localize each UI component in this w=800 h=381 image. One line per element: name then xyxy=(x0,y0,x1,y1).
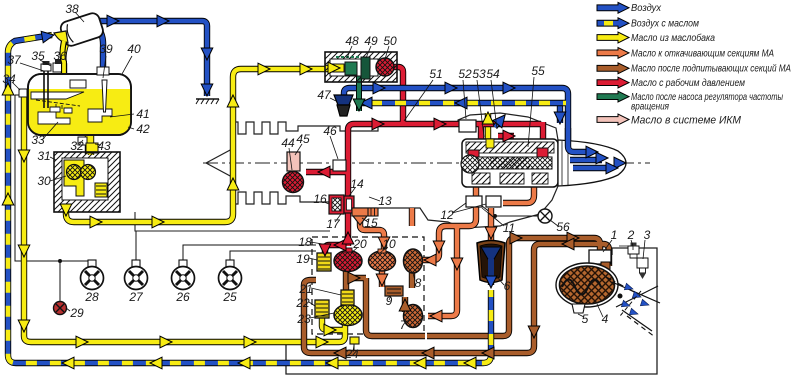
flow arrows brown xyxy=(334,232,579,359)
radiator housing 1 xyxy=(589,250,611,264)
svg-text:43: 43 xyxy=(97,139,111,153)
dashed pump unit box MA xyxy=(312,237,424,334)
wire yellow pipe separator to tank xyxy=(63,41,65,73)
radiator inlet pipe xyxy=(601,262,610,272)
air separator 38 xyxy=(59,11,105,47)
svg-text:31: 31 xyxy=(37,149,50,163)
svg-text:48: 48 xyxy=(345,34,359,48)
tank float valve xyxy=(50,107,72,113)
svg-text:50: 50 xyxy=(383,34,397,48)
svg-text:33: 33 xyxy=(31,133,45,147)
wire sensor 25 xyxy=(230,251,316,262)
legend arrow oil after makeup xyxy=(597,63,629,74)
flow arrows blue xyxy=(41,15,618,288)
svg-text:25: 25 xyxy=(222,290,237,304)
drain fitting 32 xyxy=(78,137,87,145)
fuel valve 3 xyxy=(619,246,648,279)
wire yellow oil lines (outlines) xyxy=(24,44,488,342)
svg-text:56: 56 xyxy=(556,220,570,234)
svg-text:Масло в системе ИКМ: Масло в системе ИКМ xyxy=(631,114,742,126)
oil tank 40 xyxy=(28,74,131,135)
svg-text:37: 37 xyxy=(7,53,22,67)
legend arrow oil to scavenge xyxy=(597,48,629,59)
valve 21 xyxy=(341,290,354,305)
separator inlet funnel xyxy=(54,31,68,43)
svg-text:6: 6 xyxy=(504,279,511,293)
wire yellow oil lines xyxy=(24,44,488,342)
svg-text:11: 11 xyxy=(503,221,515,235)
centrifugal breather 47 xyxy=(334,95,353,116)
svg-text:16: 16 xyxy=(313,192,327,206)
tank bottom baffle 33 xyxy=(38,112,70,124)
svg-text:27: 27 xyxy=(128,290,144,304)
svg-text:18: 18 xyxy=(298,235,312,249)
wire red pressure lines xyxy=(306,67,543,257)
makeup pump 23 xyxy=(334,305,362,326)
shutoff valve 56 xyxy=(538,209,552,223)
svg-text:55: 55 xyxy=(531,64,545,78)
svg-text:46: 46 xyxy=(323,124,337,138)
wire from fitting 24 xyxy=(353,344,355,352)
wire air-with-oil dashed line breather run (yellow dashes) xyxy=(357,101,566,106)
legend arrow IKM oil xyxy=(597,114,629,125)
vent symbol xyxy=(196,99,219,104)
pump 44 xyxy=(283,172,304,193)
drain valve 43 xyxy=(86,143,98,153)
engine outline xyxy=(206,113,558,228)
wire green governor line overlay xyxy=(356,80,362,111)
part labels xyxy=(2,2,650,361)
gauge tube 37 xyxy=(44,70,48,108)
fitting 52 xyxy=(459,120,476,132)
filler neck 40 xyxy=(70,80,86,88)
svg-text:1: 1 xyxy=(611,228,618,242)
svg-text:Масло из маслобака: Масло из маслобака xyxy=(631,32,715,44)
sensor 22 xyxy=(315,300,329,318)
svg-text:26: 26 xyxy=(175,290,190,304)
engine centerline xyxy=(203,162,650,164)
air arrow in tail xyxy=(614,157,626,169)
wire valve 56 xyxy=(482,206,539,216)
svg-text:49: 49 xyxy=(364,34,378,48)
tank level mark xyxy=(36,100,80,111)
svg-text:36: 36 xyxy=(53,49,67,63)
svg-text:29: 29 xyxy=(69,306,84,320)
legend arrow governor pump xyxy=(597,91,629,102)
svg-text:45: 45 xyxy=(296,132,310,146)
legend xyxy=(597,2,791,126)
legend arrow working pressure xyxy=(597,77,629,88)
sensor 28 xyxy=(81,260,104,290)
svg-text:44: 44 xyxy=(281,136,295,150)
svg-text:52: 52 xyxy=(458,67,472,81)
flow arrows yellow xyxy=(2,62,494,369)
svg-text:53: 53 xyxy=(472,67,486,81)
svg-text:35: 35 xyxy=(31,49,45,63)
tail cone xyxy=(558,140,626,186)
check valve 9 xyxy=(385,286,403,296)
wire blue air into tail (overlay) xyxy=(568,128,612,168)
svg-text:38: 38 xyxy=(65,2,79,16)
tank baffle xyxy=(31,92,84,99)
svg-text:47: 47 xyxy=(317,88,332,102)
scavenge pump 8 xyxy=(404,249,423,273)
tank outlet pipe 41 xyxy=(88,109,112,122)
drain fitting 24 xyxy=(350,337,359,344)
wire sensor 28 to tank xyxy=(15,95,92,262)
wire sensor 26 xyxy=(183,245,316,262)
svg-text:8: 8 xyxy=(415,276,422,290)
svg-text:24: 24 xyxy=(344,347,359,361)
legend arrow air xyxy=(597,2,629,13)
governor pump unit 48 49 50 xyxy=(325,52,397,82)
wire orange scavenge lines xyxy=(360,183,534,316)
svg-text:5: 5 xyxy=(582,312,589,326)
turbine bearing support xyxy=(461,139,558,187)
wire red pressure lines (outlines) xyxy=(306,67,543,257)
svg-text:21: 21 xyxy=(298,282,312,296)
valve 17 xyxy=(344,196,354,213)
scavenge filter 6 xyxy=(477,241,505,283)
legend arrow air with oil xyxy=(597,18,629,29)
thermo valve 2 xyxy=(628,243,639,259)
drain funnel 15 xyxy=(352,208,378,225)
wire brown return lines xyxy=(304,238,609,353)
fitting 12a xyxy=(466,196,482,207)
wire blue air lines xyxy=(95,21,618,285)
svg-text:10: 10 xyxy=(382,237,396,251)
wire air-with-oil dashed line left riser (yellow dashes) xyxy=(8,35,491,363)
svg-text:17: 17 xyxy=(326,217,341,231)
oil radiator 4 xyxy=(556,263,618,307)
wire brown return lines (outlines) xyxy=(304,238,609,353)
svg-text:3: 3 xyxy=(644,228,651,242)
wire to valve 29 xyxy=(59,261,61,302)
svg-text:9: 9 xyxy=(386,294,393,308)
svg-text:12: 12 xyxy=(440,208,454,222)
diagonal air arrow 54 xyxy=(490,111,509,131)
svg-text:13: 13 xyxy=(378,194,392,208)
svg-text:Воздух с маслом: Воздух с маслом xyxy=(631,19,699,30)
svg-text:39: 39 xyxy=(99,42,113,56)
fitting 34 xyxy=(19,89,27,97)
scavenge pump 10 xyxy=(369,249,396,271)
spray line xyxy=(620,291,641,316)
pressure regulator 45 xyxy=(287,152,300,171)
node junction 56 xyxy=(493,214,497,218)
wire orange scavenge lines (outlines) xyxy=(360,183,534,316)
svg-text:28: 28 xyxy=(84,290,99,304)
sensor 25 xyxy=(219,260,242,290)
svg-text:19: 19 xyxy=(296,252,310,266)
louver sketch xyxy=(606,277,660,337)
sensor 27 xyxy=(125,260,148,290)
wire green governor pump line (outline) xyxy=(341,66,359,111)
cap 35 xyxy=(41,61,51,71)
svg-text:30: 30 xyxy=(37,174,51,188)
dipstick 39 xyxy=(102,80,107,112)
flow arrow green xyxy=(353,99,365,111)
fitting 46 xyxy=(333,160,346,171)
svg-text:Воздух: Воздух xyxy=(631,3,662,14)
svg-text:15: 15 xyxy=(364,216,378,230)
svg-text:20: 20 xyxy=(352,237,367,251)
fitting blue pipe into tank xyxy=(97,67,109,75)
fitting 12b xyxy=(486,196,501,207)
svg-text:51: 51 xyxy=(429,67,442,81)
air flow arrows xyxy=(621,283,650,317)
leader lines xyxy=(12,12,645,352)
oil filter 16 xyxy=(329,195,344,214)
svg-text:42: 42 xyxy=(136,122,150,136)
svg-text:41: 41 xyxy=(136,107,149,121)
wire green governor pump line xyxy=(341,66,359,111)
wire air-with-oil dashed line left riser (outline) xyxy=(8,35,491,363)
airframe box xyxy=(286,248,657,374)
louver pivot xyxy=(618,294,623,299)
main oil pump unit 30 31 xyxy=(54,152,120,212)
drain valve 29 xyxy=(54,302,67,315)
sensor 19 xyxy=(317,253,331,271)
svg-text:14: 14 xyxy=(350,177,364,191)
svg-text:34: 34 xyxy=(2,72,16,86)
wire sensor 27 xyxy=(135,231,137,262)
svg-text:22: 22 xyxy=(295,296,310,310)
cap 36 xyxy=(53,59,64,72)
wire blue air lines (outlines) xyxy=(95,21,618,285)
svg-text:23: 23 xyxy=(296,312,311,326)
flow arrows orange xyxy=(376,227,497,322)
flow arrows red xyxy=(318,118,515,256)
wire air-with-oil dashed line left riser (blue base) xyxy=(8,35,491,363)
pressure pump 20 xyxy=(334,248,362,272)
svg-text:вращения: вращения xyxy=(631,101,670,112)
node junction 29 xyxy=(58,259,62,263)
nacelle line xyxy=(135,212,330,231)
scavenge pump 7 xyxy=(404,305,423,328)
svg-text:Масло после подпитывающих секц: Масло после подпитывающих секций МА xyxy=(631,64,791,75)
wire air-with-oil dashed line breather run (blue base) xyxy=(357,101,566,106)
svg-text:54: 54 xyxy=(486,67,500,81)
svg-text:Масло к откачивающим секциям М: Масло к откачивающим секциям МА xyxy=(631,48,774,59)
sensor 26 xyxy=(172,260,195,290)
radiator drain 5 xyxy=(572,304,585,313)
svg-text:Масло с рабочим давлением: Масло с рабочим давлением xyxy=(631,77,745,89)
svg-text:40: 40 xyxy=(127,42,141,56)
wire air-with-oil dashed line breather run (outline) xyxy=(357,100,566,106)
legend arrow oil from tank xyxy=(597,32,629,43)
svg-text:4: 4 xyxy=(602,312,609,326)
svg-text:2: 2 xyxy=(627,228,635,242)
svg-text:32: 32 xyxy=(70,139,84,153)
